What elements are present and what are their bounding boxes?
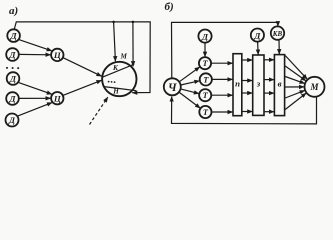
svg-text:Т: Т xyxy=(203,91,209,100)
wire D1 to C1 xyxy=(19,40,52,51)
wire V to M fan 3 xyxy=(285,77,304,84)
trigger T4 xyxy=(199,106,211,118)
wire top bus of diagram a xyxy=(14,22,150,93)
wire C1 to commutator xyxy=(63,58,101,76)
wire Z to V row 2 xyxy=(264,79,274,81)
wire clock top feed to KV xyxy=(172,22,278,78)
label K contact xyxy=(112,64,119,72)
trigger T2 xyxy=(200,73,212,85)
wire D5 to C2 xyxy=(18,103,52,116)
converter box P xyxy=(233,54,242,116)
wire M feedback to clock xyxy=(172,97,317,124)
wire KV to V xyxy=(278,40,280,55)
trigger T3 xyxy=(199,89,211,101)
svg-text:б): б) xyxy=(165,1,174,13)
wire T1 to P xyxy=(211,62,233,64)
output box V xyxy=(274,55,284,116)
svg-text:Д: Д xyxy=(9,74,17,84)
svg-text:Т: Т xyxy=(202,59,208,68)
sensor D2 (b) above Z xyxy=(251,28,264,41)
memory box Z xyxy=(253,55,264,115)
svg-text:Д: Д xyxy=(8,115,16,125)
wire drop 1 into commutator (M drive) xyxy=(114,22,116,61)
encoder C1 xyxy=(51,49,63,61)
svg-text:Д: Д xyxy=(201,31,209,41)
wire clock to T3 xyxy=(181,89,199,94)
end switch KV xyxy=(271,26,284,39)
commutator lower contact chord xyxy=(103,87,136,91)
wire clock to T1 xyxy=(179,67,200,82)
ellipsis dots inside commutator xyxy=(108,81,116,83)
wire D4 to C2 xyxy=(19,97,51,99)
node junction dot 2 on top bus xyxy=(132,21,135,24)
commutator upper contact chord xyxy=(102,64,134,77)
wire D2 to Z xyxy=(257,42,260,55)
svg-text:Ц: Ц xyxy=(53,50,62,60)
wire V to M fan 2 xyxy=(285,66,306,81)
svg-text:Т: Т xyxy=(203,75,209,84)
wire dashed drive arrow xyxy=(90,97,108,124)
svg-text:а): а) xyxy=(9,5,18,17)
wire P to Z row 3 xyxy=(242,92,253,94)
label M (motor) xyxy=(120,52,128,60)
wire V to M fan 1 xyxy=(285,56,307,80)
sensor D4 xyxy=(6,92,19,105)
wire D to T1 xyxy=(204,43,206,57)
wire V to M fan 4 xyxy=(285,86,304,88)
wire T3 to P xyxy=(211,94,232,96)
sensor D5 xyxy=(6,114,19,127)
trigger T1 xyxy=(199,57,211,69)
svg-text:з: з xyxy=(256,79,261,89)
wire Z to V row 1 xyxy=(264,59,274,61)
svg-text:М: М xyxy=(309,82,319,92)
svg-text:Ц: Ц xyxy=(53,93,62,103)
wire P to Z row 2 xyxy=(242,80,253,82)
svg-text:п: п xyxy=(235,79,240,89)
sensor D top (b) xyxy=(198,29,211,42)
commutator circle K xyxy=(102,62,136,96)
svg-text:в: в xyxy=(278,79,282,89)
wire T2 to P xyxy=(212,78,233,80)
svg-text:М: М xyxy=(120,52,128,60)
wire D2 to C1 xyxy=(19,53,51,55)
receiver M xyxy=(305,77,325,97)
svg-text:Ч: Ч xyxy=(168,82,177,94)
wire clock to T2 xyxy=(181,81,200,85)
wire clock to T4 xyxy=(179,92,200,108)
sensor D1 xyxy=(7,29,20,42)
label a) xyxy=(9,5,18,17)
label b) xyxy=(165,1,174,13)
wire V to M fan 5 xyxy=(285,90,305,98)
wire V to M fan 6 xyxy=(285,93,306,109)
svg-text:Н: Н xyxy=(112,87,119,95)
wire C2 to commutator xyxy=(63,80,101,95)
wire D3 to C2 xyxy=(19,83,52,95)
wire T4 to P xyxy=(212,111,233,113)
encoder C2 xyxy=(51,92,63,104)
clock Ch xyxy=(164,78,181,95)
wire drop 2 into commutator xyxy=(132,22,134,66)
wire P to Z row 4 xyxy=(242,111,253,113)
node junction dot 1 on top bus xyxy=(112,21,115,24)
sensor D3 xyxy=(7,72,20,85)
svg-text:Д: Д xyxy=(8,50,16,60)
ellipsis dots between sensors xyxy=(6,67,19,69)
svg-text:Т: Т xyxy=(203,108,209,117)
wire Z to V row 3 xyxy=(264,92,274,94)
svg-text:Д: Д xyxy=(8,94,16,104)
wire Z to V row 4 xyxy=(264,111,274,113)
sensor D2 xyxy=(6,48,19,61)
label H contact xyxy=(112,87,119,95)
svg-text:Д: Д xyxy=(253,30,261,40)
svg-text:Д: Д xyxy=(10,31,18,41)
wire P to Z row 1 xyxy=(242,59,253,61)
svg-text:КВ: КВ xyxy=(272,30,283,38)
